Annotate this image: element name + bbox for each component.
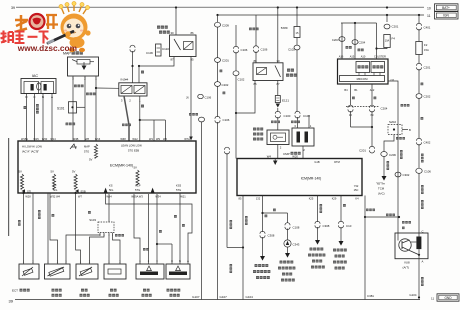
MAP pin labels 3 2 1 [72,77,97,81]
wire relay K1 pin87 to injector [138,57,174,83]
svg-text:S101: S101 [57,106,65,110]
svg-text:W16: W16 [95,137,101,141]
wire cluster C6 down to transistor base [388,81,410,217]
wire column to ground G107 (left) [199,117,205,299]
op-amp instrument cluster box [338,59,389,84]
relay K1 pin labels [170,31,194,62]
wire BAT+ fuse SX89 column to CMP sensor [281,8,311,129]
IAC pin labels D C B A [25,95,53,99]
svg-text:W34: W34 [155,195,161,199]
wire E121 column via C100 to EGR [271,108,291,130]
connector C106 / wire to injector [130,45,153,83]
svg-text:LEAN LOW LOW: LEAN LOW LOW [121,144,142,148]
svg-text:IGN: IGN [443,14,449,18]
wire bus y23 into cluster [341,22,378,59]
label TP SIG [53,183,57,192]
svg-text:C201: C201 [359,149,366,153]
wire IAC to ECM [27,94,53,142]
svg-text:A10: A10 [361,55,366,59]
svg-text:MAP: MAP [84,145,90,149]
wire C206 to TCM A/C [376,152,396,196]
svg-text:5TG E5B: 5TG E5B [128,149,139,153]
svg-text:10A: 10A [385,40,390,43]
wires cluster to C204 [351,84,377,106]
connectors C203 C204 [332,37,366,45]
ground G104 right label [409,293,416,297]
watermark red text weiku-yixia [1,31,49,44]
svg-text:30: 30 [276,59,280,63]
svg-text:MDCOM: MDCOM [357,77,369,81]
svg-text:5V: 5V [89,158,93,162]
svg-text:5TG: 5TG [176,188,181,192]
cluster bottom pin labels [344,88,374,92]
svg-text:C106: C106 [241,48,248,52]
svg-text:5IG: 5IG [109,188,113,192]
svg-text:W32 W4: W32 W4 [50,195,61,199]
watermark www.dzsc.com text [17,43,77,53]
level sensor B8 [166,264,190,279]
ECM bottom pin labels [25,195,186,199]
svg-text:TCM: TCM [378,187,385,191]
svg-text:VU8: VU8 [404,261,410,265]
svg-text:W68: W68 [120,137,126,141]
svg-text:15A: 15A [424,48,429,52]
svg-text:C106: C106 [146,51,153,55]
svg-text:ECT: ECT [12,289,18,293]
resistor ECM 5V pullup (MAP) [89,144,98,162]
svg-text:CMP: CMP [283,152,290,156]
svg-text:5IG: 5IG [53,188,57,192]
svg-text:5V: 5V [51,170,55,174]
label main relay [286,69,297,77]
tachometer / speedometer boxes [356,62,385,73]
labels wire colors [143,230,162,251]
svg-text:W30: W30 [42,137,48,141]
label wire color brn/wht [366,209,375,212]
relay K2 main [253,63,283,81]
label IAT sensor [80,289,90,297]
connector C204 (dashed) [346,105,388,117]
node splice S103 [89,194,124,237]
svg-text:W15A: W15A [21,137,28,141]
wire vertical stub left of ECM [8,138,10,236]
label CMP sensor [283,152,301,156]
svg-text:G104: G104 [409,293,416,297]
CMP pin labels [294,124,312,152]
ground G107 right [220,295,228,299]
wire ICM K25 to cooling fan motor relay [308,196,330,269]
svg-text:C6: C6 [391,78,395,82]
label STI input arrow [22,189,32,193]
label IAC [32,74,39,78]
svg-text:G107: G107 [220,295,228,299]
wire CMP to ICM [292,146,303,159]
svg-text:KS5: KS5 [176,183,182,187]
svg-text:B4: B4 [344,88,348,92]
svg-text:C201: C201 [222,59,229,63]
label ECT wire color [18,220,21,226]
MAP sensor B1 [68,57,99,76]
svg-text:86: 86 [190,31,194,35]
node BAT+ terminal box [427,4,458,11]
svg-text:39: 39 [11,6,15,10]
MDCOM bar [340,76,395,83]
svg-text:ECM(MR-140): ECM(MR-140) [110,164,133,168]
connector C110 [156,44,170,56]
svg-text:ACP: ACP [135,183,141,187]
svg-text:W8: W8 [85,137,89,141]
svg-text:G1B: G1B [314,160,319,164]
ground E121 via relay K2 pin87 [275,81,289,108]
svg-text:CLU5TER: CLU5TER [374,55,386,59]
svg-text:C106: C106 [205,96,212,100]
svg-text:S103: S103 [89,218,96,222]
svg-text:B1: B1 [354,88,358,92]
label EGR solenoid valve [253,128,263,141]
svg-text:C106: C106 [424,170,431,174]
svg-text:5TG: 5TG [135,188,140,192]
intake air temp sensor B5 [76,264,98,279]
svg-text:(A/C): (A/C) [378,192,385,196]
wire relay K1 pin85 to ECM W7A [189,57,193,141]
TP pin labels [47,260,67,264]
svg-text:C102: C102 [238,78,245,82]
labels wire colors [174,215,185,227]
wire BAT+ bus (top rail, page ref 39) [11,6,424,10]
svg-text:C106: C106 [223,118,230,122]
label EGR input arrow [75,189,86,193]
wire into transistor base [398,217,411,233]
svg-text:W12: W12 [132,137,138,141]
wire ground rail bottom (page ref 39) [9,296,435,303]
svg-text:11: 11 [431,296,434,300]
wire injector pin2 to ECM W12 (thick) [124,96,129,141]
label wire colors (green, yellow/white) [24,104,39,114]
svg-text:F2: F2 [424,43,428,47]
node GND terminal box [437,294,459,301]
label ECM MAP input [84,145,90,154]
svg-text:STI: STI [27,189,31,193]
label knock sensor [109,289,119,297]
svg-text:K29: K29 [332,197,337,201]
svg-text:C401: C401 [424,26,431,30]
svg-text:W21: W21 [180,195,186,199]
svg-text:39: 39 [9,299,14,304]
op-amp ECM module box (MR-140) [18,141,196,193]
label ECM(MR-140) [110,164,133,168]
wires pressure sensor to ECM [134,194,172,264]
wire KS signal loop to level sensor pin A [106,193,192,264]
wire injector pin1 to ECM W1 W9 W5 [139,96,166,141]
wire column joining G104 drop [224,147,244,248]
wires level sensor [172,193,180,264]
relay K2 pin labels [253,59,280,86]
svg-text:W7A: W7A [184,137,190,141]
svg-text:A15: A15 [350,55,355,59]
svg-text:5TG: 5TG [84,149,89,153]
label KS5 STG [176,183,182,192]
svg-text:C102: C102 [288,48,295,52]
svg-text:F4: F4 [392,37,396,41]
wire EGR to ICM pin W4 [267,145,282,159]
svg-text:C108: C108 [293,226,300,230]
svg-text:W1: W1 [149,137,153,141]
svg-text:W9: W9 [156,137,160,141]
svg-text:87: 87 [276,82,280,86]
wire ICM pin to ground G104 [243,196,253,300]
label pressure sensor [142,289,152,297]
ECT sensor B3 [19,264,39,279]
label fuel pump relay [157,26,170,34]
svg-text:A: A [422,260,424,264]
label ECM IAC drivers [22,145,42,154]
label wire colors black purple/blk [122,105,144,127]
wire MAP to ECM [73,76,96,141]
svg-text:C201: C201 [424,66,431,70]
fuse F4 feed to cluster [377,15,399,49]
svg-text:INJ#4: INJ#4 [121,78,129,82]
svg-text:DTM: DTM [334,160,340,164]
svg-text:W5: W5 [163,137,167,141]
svg-text:IAC"A" IAC"B": IAC"A" IAC"B" [22,149,39,153]
svg-text:E5B: E5B [81,189,86,193]
svg-text:W29A W3: W29A W3 [131,195,143,199]
wire ECT to ECM [24,193,34,264]
wire CMP pin1 stub [308,115,310,128]
svg-text:C381: C381 [367,294,374,298]
watermark dzsc logo badge [15,13,58,32]
node IGN terminal box [427,12,458,19]
resistor 5V (STI) [19,170,24,190]
svg-text:C206: C206 [389,153,396,157]
injector pin labels [121,99,141,103]
svg-text:C204: C204 [359,41,366,45]
wires IAT to ECM and S103 [76,193,104,264]
CMP sensor B2 [292,128,314,146]
connector C201 below cluster [359,146,375,153]
svg-text:C10: C10 [346,224,352,228]
svg-text:C100: C100 [284,114,291,118]
svg-text:30: 30 [170,31,174,35]
svg-text:IAC: IAC [32,74,39,78]
svg-text:A16: A16 [339,55,344,59]
wires gauges to MDCOM [359,73,380,76]
wire IGN column C401/F2/C201/C202/C402/C106 [416,15,432,237]
wire ICM K4 to ground via C381 [364,196,400,300]
svg-text:W15: W15 [33,137,39,141]
svg-text:10: 10 [427,7,431,11]
transistor Q1 module VU8 [395,233,428,259]
EGR valve Y1 [267,130,289,145]
svg-text:86: 86 [253,59,257,63]
cluster top pin labels [339,55,386,59]
label injector [121,78,129,82]
wire join below C204 [351,111,374,147]
svg-text:G107: G107 [192,295,200,299]
throttle position sensor B4 [45,264,71,279]
svg-text:W4B: W4B [73,137,79,141]
IAT pin labels [80,260,91,264]
svg-text:5X89: 5X89 [281,26,288,30]
label collector C [422,230,424,234]
wire ICM to condenser fan relay [253,196,288,280]
label VU8 (A/T) [403,260,424,270]
svg-text:C203: C203 [332,38,339,42]
connector C106 labels mid [186,94,212,99]
label ECT sensor [12,289,30,293]
svg-text:W28: W28 [25,195,31,199]
wire BAT+ to relay K1 pin30 [175,8,177,36]
svg-text:C201: C201 [392,25,399,29]
svg-text:C302: C302 [403,173,410,177]
wire IGN to relay K2 pin86 via C106 [253,15,267,63]
svg-text:TP: TP [53,183,57,187]
label wire color purple [141,71,144,74]
svg-text:BAT+: BAT+ [442,6,450,10]
label TP wire colors [38,210,54,219]
svg-text:5V: 5V [19,170,23,174]
watermark mascot [48,1,91,52]
svg-text:K4: K4 [355,197,359,201]
resistor 5V (ACP) [134,166,140,186]
node junctions on power buses [175,6,420,16]
svg-text:"65"Ter: "65"Ter [376,182,385,186]
ground arrow inside ICM top [273,159,278,166]
svg-text:C308: C308 [323,224,330,228]
ground symbol inside ECM [70,144,77,149]
svg-text:15C: 15C [354,188,359,192]
svg-text:ICM(MR-140): ICM(MR-140) [301,177,322,181]
svg-text:C209: C209 [222,24,229,28]
pressure sensor B7 [136,264,164,279]
svg-text:G104: G104 [246,295,254,299]
svg-text:S202: S202 [389,120,396,124]
svg-text:(A/T): (A/T) [403,266,409,270]
svg-text:C343: C343 [293,243,300,247]
svg-text:C204: C204 [381,107,388,111]
ECT pin labels [23,260,35,264]
svg-text:C202: C202 [222,83,229,87]
label wire color ppl/blk [291,121,300,124]
knock pin labels [108,260,121,264]
svg-text:W7: W7 [78,195,82,199]
node splice S202 to C206 [384,120,411,152]
wire BAT+ to relay K2 pin30 [277,8,279,63]
svg-text:HI LOW HI LOW: HI LOW HI LOW [22,145,42,149]
svg-text:5V: 5V [134,166,138,170]
node dots on ECM bottom edge [22,192,76,194]
label KS SIG arrow [104,183,114,192]
op-amp ICM module box (MR-140) [237,159,362,196]
svg-text:C202: C202 [424,95,431,99]
ICM internal labels [314,160,358,192]
label TP sensor [52,289,62,297]
IAC valve M1 [21,79,56,94]
node splice S101 [57,102,85,113]
wire to condenser fan control relay C108/C343 [278,213,300,282]
wire ICM K29 to A/C compressor relay [333,196,352,270]
svg-text:87: 87 [170,58,174,62]
svg-text:C308: C308 [268,234,275,238]
label wire color yel/blk [249,28,259,31]
svg-text:Y32: Y32 [354,184,359,188]
wire transistor emitter to ground [418,249,424,299]
svg-text:C110: C110 [162,47,169,51]
svg-text:B: B [409,128,411,132]
relay K1 fuel pump [170,35,197,57]
svg-text:GND: GND [444,296,452,300]
svg-text:132: 132 [256,197,261,201]
labels yellow/purple wires [346,46,364,51]
label IAT wire color [88,211,91,214]
wire IGN bus [217,14,424,16]
label brn/wht at branch [386,214,395,217]
wire MAP pin1 branch to injector [95,87,119,89]
label ICM(MR-140) [301,177,322,181]
wire IGN feed column C209/C201/C202/C106 to ground G107 [215,15,230,300]
resistor 5V (EGR) [72,170,77,190]
label ACP SIG arrow [135,183,155,192]
wire C106/C102 column to ICM [233,25,248,159]
level sensor pin labels [171,259,189,263]
label level sensor [167,289,181,297]
resistor 5V (TP) [51,170,56,190]
pressure pin labels [139,259,158,263]
svg-text:E121: E121 [282,99,289,103]
label wire colors green/blk green/red [66,85,96,126]
knock sensor B6 [104,264,126,279]
svg-text:W14: W14 [50,137,56,141]
svg-text:C106: C106 [261,48,268,52]
svg-text:www.dzsc.com: www.dzsc.com [17,43,77,53]
label MAP sensor [63,51,83,55]
ECM top pin labels [21,137,190,141]
label wire color brn/yel [189,113,198,116]
ICM bottom pin labels [239,197,360,201]
label wire colors blk/wht [230,220,233,273]
ground G107 left label [192,295,200,299]
wires knock to S103 [109,233,120,265]
svg-text:11: 11 [427,14,431,18]
wires TP to ECM and S103 [48,193,100,264]
wire relay K2 pin85 [235,81,255,115]
svg-text:C402: C402 [424,141,431,145]
svg-text:KS: KS [109,183,113,187]
svg-text:5V: 5V [72,170,76,174]
injector FL1 [119,83,147,96]
label ECM lean/low [121,144,142,153]
svg-text:K25: K25 [309,197,314,201]
